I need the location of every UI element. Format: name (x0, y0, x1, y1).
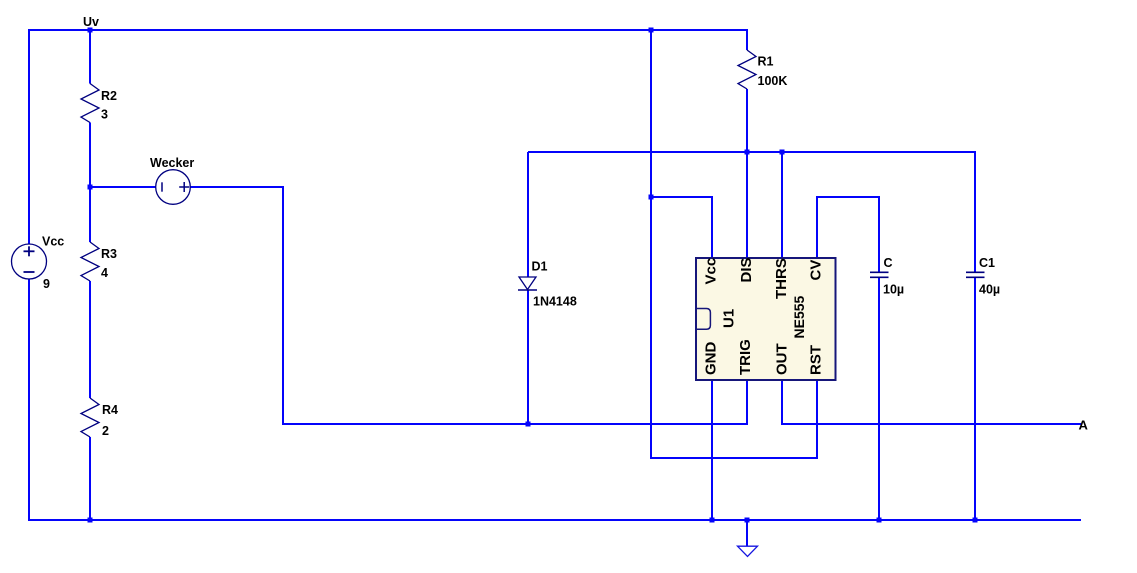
svg-text:TRIG: TRIG (737, 339, 754, 375)
svg-text:U1: U1 (720, 309, 737, 328)
svg-text:NE555: NE555 (791, 295, 807, 338)
svg-text:D1: D1 (532, 260, 548, 274)
svg-text:4: 4 (101, 266, 108, 280)
svg-text:3: 3 (101, 108, 108, 122)
svg-text:100K: 100K (758, 74, 788, 88)
svg-text:R4: R4 (102, 403, 118, 417)
svg-text:40µ: 40µ (979, 283, 1000, 297)
svg-text:Vcc: Vcc (702, 258, 719, 285)
svg-text:10µ: 10µ (883, 283, 904, 297)
svg-text:R2: R2 (101, 89, 117, 103)
svg-text:R1: R1 (758, 55, 774, 69)
svg-text:RST: RST (807, 345, 824, 375)
svg-text:Uv: Uv (83, 15, 99, 29)
svg-text:1N4148: 1N4148 (533, 295, 577, 309)
svg-text:Wecker: Wecker (150, 156, 194, 170)
svg-text:R3: R3 (101, 247, 117, 261)
svg-text:A: A (1079, 418, 1089, 433)
svg-text:DIS: DIS (738, 257, 755, 282)
svg-text:9: 9 (43, 277, 50, 291)
svg-text:CV: CV (807, 260, 824, 281)
svg-text:2: 2 (102, 424, 109, 438)
svg-text:GND: GND (702, 342, 719, 376)
svg-text:THRS: THRS (773, 258, 790, 299)
svg-text:C1: C1 (979, 256, 995, 270)
svg-text:Vcc: Vcc (42, 235, 64, 249)
svg-text:OUT: OUT (773, 343, 790, 375)
svg-text:C: C (884, 256, 893, 270)
